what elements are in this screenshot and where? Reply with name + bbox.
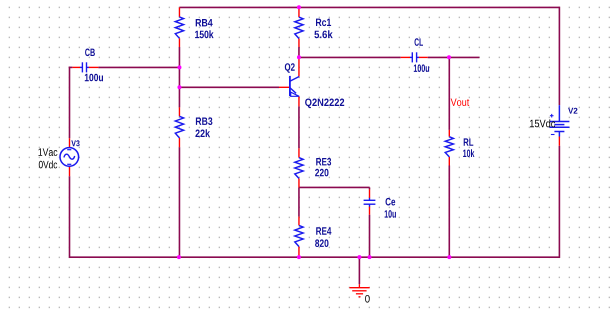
wire node A to node B [178, 67, 180, 87]
wire ground stem [358, 257, 360, 284]
node junction collector node [297, 55, 301, 59]
wire V3 column upper [69, 67, 71, 139]
resistor RL [445, 130, 474, 166]
wire Rc1 bottom to collector node [298, 47, 300, 57]
label Ce [386, 198, 396, 206]
label RL [464, 138, 474, 145]
value 100u [85, 74, 103, 82]
wire RE3 to Ce horizontal [299, 186, 370, 188]
value 10u [385, 210, 396, 218]
value 220 [315, 169, 328, 177]
capacitor Ce [364, 189, 396, 217]
resistor RE3 [295, 148, 331, 187]
node junction Ce bottom rail [368, 255, 372, 259]
wire V2 column lower [558, 146, 560, 258]
capacitor CL [401, 38, 429, 72]
resistor RB3 [175, 107, 212, 147]
label V3 [71, 140, 79, 146]
wire emitter down to RE3 [298, 106, 300, 148]
attribute 15Vdc [530, 119, 555, 127]
label Q2 [285, 63, 295, 73]
label CL [415, 38, 424, 46]
wire V2 column upper [558, 7, 560, 106]
label CB [85, 49, 95, 57]
value 100u [414, 64, 429, 72]
wire V3 column lower [69, 176, 71, 258]
wire top rail [179, 6, 559, 8]
wire RB3 bottom to rail [178, 147, 180, 257]
value 10k [463, 149, 474, 157]
source V3 [39, 138, 80, 176]
node junction RL bottom rail [447, 255, 451, 259]
wire output stub [449, 56, 479, 58]
label Rc1 [316, 19, 331, 27]
wire CB to bias node [98, 66, 179, 68]
label RE3 [316, 158, 331, 166]
label RB3 [196, 117, 213, 125]
capacitor CB [72, 49, 103, 82]
node junction RE4 bottom rail [297, 255, 301, 259]
wire base [179, 86, 279, 88]
node junction node B base [177, 85, 181, 89]
node junction ground rail [357, 255, 361, 259]
label RE4 [316, 227, 331, 234]
resistor Rc1 [295, 7, 333, 47]
node junction RB3 bottom rail [177, 255, 181, 259]
wire CB left corner [69, 66, 73, 68]
resistor RB4 [175, 7, 213, 47]
wire collector node to CL [299, 56, 401, 58]
value Q2N2222 [305, 99, 344, 109]
value 5.6k [314, 30, 332, 38]
wire bottom rail [70, 256, 560, 258]
node junction Rc1 top [297, 5, 301, 9]
value 22k [195, 129, 210, 137]
wire Ce corner [369, 187, 371, 189]
node junction Vout node [447, 55, 451, 59]
wire RB4 bottom to node A [178, 47, 180, 67]
net label Vout [451, 99, 470, 107]
node junction node A bias top [177, 65, 181, 69]
wire output node down to RL [448, 57, 450, 129]
transistor Q2 [279, 57, 344, 108]
wire Ce bottom to rail [369, 215, 371, 257]
attribute 0Vdc [39, 161, 57, 169]
ground 0 [349, 284, 369, 303]
resistor RE4 [295, 217, 332, 258]
wire RE3 node down to RE4 [298, 187, 300, 216]
label V2 [568, 108, 577, 114]
source V2 [530, 105, 577, 146]
wire node B down to RB3 [178, 87, 180, 107]
label RB4 [196, 19, 213, 26]
wire CL to output node [428, 56, 450, 58]
net name 0 [365, 295, 370, 303]
value 820 [315, 239, 328, 247]
attribute 1Vac [39, 148, 58, 156]
wire RL bottom to rail [448, 166, 450, 258]
value 150k [195, 30, 214, 38]
